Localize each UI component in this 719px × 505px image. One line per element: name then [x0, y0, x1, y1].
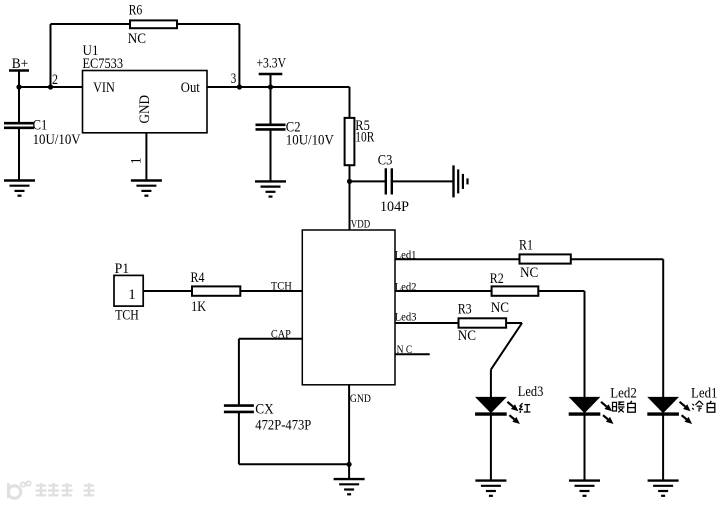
- pin number 2: [52, 72, 58, 88]
- svg-text:R1: R1: [519, 238, 533, 254]
- wire: [240, 290, 302, 292]
- svg-text:R2: R2: [490, 271, 504, 287]
- ground: [131, 181, 162, 196]
- ground: [475, 481, 506, 496]
- ground rotated: [454, 165, 468, 197]
- wire: [584, 291, 586, 397]
- svg-text:1K: 1K: [191, 299, 206, 315]
- ground: [4, 181, 35, 196]
- svg-text:R3: R3: [458, 302, 472, 318]
- svg-text:GND: GND: [137, 95, 153, 124]
- svg-text:10U/10V: 10U/10V: [286, 133, 334, 149]
- svg-text:Led3: Led3: [518, 384, 544, 400]
- wire: [538, 290, 584, 292]
- pin Led2 label: [395, 279, 417, 293]
- capacitor CX: [224, 402, 311, 434]
- IC touch controller: [302, 230, 395, 385]
- wire: [584, 416, 586, 481]
- wire: [238, 339, 240, 406]
- svg-text:Led1: Led1: [691, 385, 718, 401]
- resistor R4: [191, 270, 241, 315]
- svg-text:B+: B+: [12, 56, 29, 72]
- svg-text:CX: CX: [255, 402, 274, 418]
- capacitor C3: [350, 153, 410, 215]
- svg-text:TCH: TCH: [271, 279, 292, 293]
- node junction at B+: [16, 84, 21, 89]
- svg-text:Out: Out: [181, 80, 201, 96]
- pin NC label: [397, 342, 413, 356]
- wire: [662, 259, 664, 397]
- svg-text:NC: NC: [520, 265, 538, 281]
- wire: [19, 86, 83, 88]
- svg-text:472P-473P: 472P-473P: [255, 417, 311, 433]
- power node +3.3V: [257, 55, 287, 87]
- svg-text:VIN: VIN: [93, 80, 115, 96]
- resistor R2: [490, 271, 539, 316]
- wire: [207, 86, 350, 88]
- wire: [490, 370, 492, 398]
- wire: [349, 181, 351, 230]
- wire: [51, 23, 131, 25]
- svg-text:NC: NC: [458, 328, 476, 344]
- node junction 3.3V: [268, 84, 273, 89]
- svg-text:Led2: Led2: [610, 385, 637, 401]
- wire: [395, 258, 520, 260]
- wire: [348, 385, 350, 479]
- svg-text:Led3: Led3: [395, 310, 417, 324]
- svg-text:10U/10V: 10U/10V: [33, 132, 81, 148]
- wire: [143, 290, 192, 292]
- node junction at GND: [347, 462, 352, 467]
- wire: [490, 416, 492, 481]
- ground: [334, 479, 365, 494]
- watermark logo: [8, 481, 94, 498]
- LED Led1: [647, 385, 717, 424]
- pin number 1: [129, 157, 145, 164]
- wire: [239, 463, 349, 465]
- svg-text:Led1: Led1: [395, 247, 417, 261]
- value label cold white: [692, 401, 715, 412]
- svg-text:2: 2: [52, 72, 58, 88]
- resistor R6: [128, 3, 177, 47]
- wire: [506, 322, 522, 324]
- svg-text:N C: N C: [397, 342, 413, 356]
- pin Led3 label: [395, 310, 417, 324]
- value label red: [519, 403, 530, 413]
- wire: [145, 133, 147, 181]
- wire: [239, 338, 302, 340]
- capacitor C1: [4, 87, 81, 181]
- capacitor C2: [256, 87, 334, 181]
- svg-text:TCH: TCH: [115, 307, 139, 323]
- resistor R1: [519, 238, 571, 282]
- svg-text:C1: C1: [33, 118, 48, 134]
- wire: [50, 24, 52, 87]
- pin TCH label: [271, 279, 292, 293]
- svg-text:+3.3V: +3.3V: [257, 55, 287, 71]
- regulator U1 EC7533: [83, 43, 208, 133]
- node junction below R5: [347, 179, 352, 184]
- svg-text:3: 3: [231, 71, 237, 87]
- wire: [177, 23, 239, 25]
- pin number 3: [231, 71, 237, 87]
- svg-text:NC: NC: [128, 31, 146, 47]
- svg-text:C3: C3: [378, 153, 393, 169]
- LED Led3: [475, 384, 543, 424]
- wire: [238, 412, 240, 464]
- svg-text:EC7533: EC7533: [83, 56, 124, 72]
- LED Led2: [569, 385, 637, 424]
- wire: [238, 24, 240, 87]
- resistor R3: [458, 302, 506, 344]
- pin CAP label: [271, 327, 291, 341]
- connector P1: [114, 261, 143, 323]
- wire: [395, 353, 430, 355]
- svg-text:1: 1: [129, 157, 145, 164]
- svg-text:P1: P1: [115, 261, 130, 277]
- svg-text:1: 1: [128, 287, 136, 303]
- wire: [571, 258, 663, 260]
- node junction pin2: [48, 84, 53, 89]
- svg-text:104P: 104P: [380, 199, 409, 215]
- svg-text:R6: R6: [129, 3, 143, 19]
- pin VDD label: [351, 217, 371, 231]
- svg-text:CAP: CAP: [271, 327, 291, 341]
- ground: [648, 481, 679, 496]
- wire: [392, 180, 454, 182]
- svg-text:GND: GND: [350, 391, 371, 405]
- wire: [491, 323, 522, 370]
- ground: [569, 481, 600, 496]
- wire: [395, 290, 492, 292]
- pin GND label: [350, 391, 371, 405]
- wire: [395, 322, 459, 324]
- svg-text:R4: R4: [191, 270, 205, 286]
- svg-text:10R: 10R: [355, 130, 374, 146]
- ground: [255, 181, 286, 196]
- power node B+: [9, 56, 29, 87]
- resistor R5: [345, 87, 375, 181]
- pin Led1 label: [395, 247, 417, 261]
- svg-text:NC: NC: [491, 300, 509, 316]
- value label warm white: [613, 401, 636, 413]
- wire: [662, 416, 664, 481]
- svg-text:Led2: Led2: [395, 279, 417, 293]
- svg-text:VDD: VDD: [351, 217, 371, 231]
- node junction pin3: [237, 84, 242, 89]
